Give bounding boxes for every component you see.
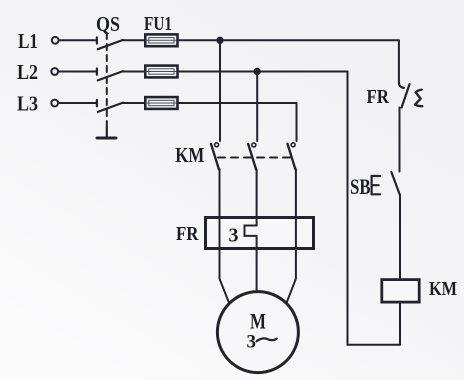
svg-text:KM: KM	[175, 143, 204, 167]
FR thermal function symbol	[415, 90, 422, 107]
wire phase 2 drop	[256, 72, 258, 142]
node A (L1 junction)	[217, 37, 224, 44]
svg-text:FR: FR	[176, 223, 199, 245]
svg-text:KM: KM	[429, 278, 457, 300]
wire QS to fuse 1	[122, 39, 145, 41]
svg-text:SB: SB	[350, 174, 371, 199]
svg-text:M: M	[250, 309, 266, 334]
terminal L3	[51, 100, 58, 107]
fuse FU1-3	[145, 97, 177, 109]
svg-text:QS: QS	[96, 12, 120, 36]
wire control branch right drop	[398, 40, 400, 84]
FR NC contact	[399, 83, 410, 108]
wire L1 top feed to control branch	[220, 39, 399, 41]
fuse FU1-2	[145, 66, 177, 78]
FR heater element notch	[245, 218, 257, 249]
coil KM	[382, 280, 419, 303]
wire L1 to QS	[59, 39, 97, 41]
KM link (dashed)	[218, 157, 291, 159]
pushbutton SB	[372, 172, 400, 195]
wire L2 to QS	[59, 71, 97, 73]
svg-text:FR: FR	[367, 86, 390, 108]
wire fuse 3 to corner	[178, 102, 297, 104]
node B (L2 junction)	[254, 68, 261, 75]
wire QS to fuse 2	[122, 71, 145, 73]
wire contact 1 to FR box	[219, 169, 221, 218]
QS mechanical link (dashed)	[106, 33, 108, 127]
wire phase 1 drop	[219, 40, 221, 141]
wire FR box to motor (phase 3)	[286, 249, 296, 304]
switch QS pole 2	[97, 69, 123, 81]
wire L2 feed to control branch	[257, 71, 347, 73]
wire fuse 1 to node	[178, 39, 221, 41]
wire phase 1 in FR box	[219, 218, 221, 249]
wire FR box to motor (phase 2)	[256, 249, 258, 292]
wire L3 to QS	[59, 102, 97, 104]
svg-text:3: 3	[229, 225, 239, 247]
switch QS pole 1	[97, 37, 123, 49]
QS handle	[97, 127, 116, 138]
svg-text:3: 3	[247, 332, 257, 353]
wire QS to fuse 3	[122, 102, 145, 104]
wire contact 3 to FR box	[295, 169, 297, 218]
wire bottom return	[348, 344, 401, 346]
fuse FU1-1	[145, 34, 177, 46]
contactor KM main contact 2	[248, 143, 256, 170]
terminal L1	[52, 37, 59, 44]
wire phase 3 drop	[296, 103, 298, 141]
wire FR contact to SB	[399, 108, 401, 172]
wire KM coil to bottom	[399, 302, 401, 345]
thermal relay FR box	[206, 218, 314, 249]
wire contact 2 to FR box	[256, 169, 258, 217]
switch QS pole 3	[97, 100, 123, 112]
svg-text:L2: L2	[17, 60, 38, 84]
wire FR box to motor (phase 1)	[220, 249, 230, 304]
wire left return riser	[347, 72, 349, 345]
wire phase 3 in FR box	[295, 218, 297, 249]
contactor KM main contact 1	[211, 143, 219, 170]
contactor KM main contact 3	[288, 143, 296, 170]
svg-text:FU1: FU1	[144, 13, 172, 35]
terminal L2	[51, 68, 58, 75]
svg-text:L1: L1	[18, 29, 38, 53]
svg-text:L3: L3	[17, 92, 38, 116]
wire SB to KM coil	[399, 195, 401, 280]
motor M	[217, 292, 298, 373]
wire fuse 2 to node	[178, 71, 258, 73]
